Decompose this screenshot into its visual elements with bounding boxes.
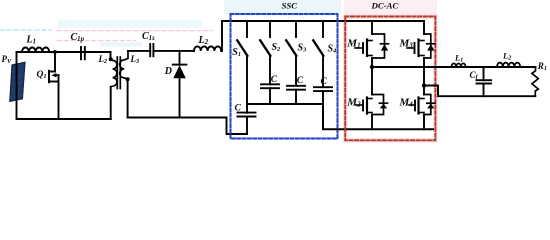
inductor L1	[22, 35, 49, 53]
capacitor C (S1 branch)	[235, 104, 256, 135]
wire: left leg bottom	[371, 115, 373, 130]
polarity dot primary	[109, 57, 113, 61]
node: left leg output junction	[370, 65, 374, 69]
resistor R1	[532, 61, 547, 96]
capacitor C (S3 branch)	[287, 56, 305, 105]
transistor M2	[346, 95, 387, 115]
svg-text:DC-AC: DC-AC	[371, 1, 399, 11]
wire: top-left horizontal rail	[17, 51, 111, 53]
capacitor C (S4 branch)	[314, 56, 332, 105]
wire: left vertical from top rail through PV to bottom rail	[16, 52, 18, 119]
inductor L2 (series)	[194, 35, 221, 51]
capacitor C (S2 branch)	[261, 56, 279, 105]
inductor L1 (output filter)	[452, 53, 466, 68]
DC-AC box	[345, 1, 435, 141]
wire: top rail into bridge	[222, 20, 424, 22]
svg-text:C: C	[271, 75, 278, 85]
transistor M3	[399, 21, 435, 58]
wire: output top (left leg junction to R1)	[372, 66, 536, 68]
wire: left leg mid	[371, 58, 373, 95]
switch S3	[286, 21, 306, 56]
transformer primary L2	[98, 54, 117, 119]
transistor M1	[346, 21, 388, 58]
wire: secondary top to C1s	[128, 50, 150, 52]
wire: step down into SSC bottom	[227, 118, 248, 135]
wire: elbow down to transformer primary	[110, 52, 112, 60]
transistor Q1	[37, 50, 59, 119]
svg-text:SSC: SSC	[282, 1, 298, 11]
SSC box	[231, 1, 338, 139]
wire: S1 column	[246, 56, 248, 113]
polarity dot secondary	[126, 77, 130, 81]
wire: elbow up to SSC top rail	[220, 21, 223, 51]
PV source Pv	[2, 54, 26, 101]
capacitor C1p	[71, 32, 85, 59]
wire: secondary bottom rail	[128, 117, 227, 119]
switch S2	[260, 21, 280, 56]
wire: right leg mid	[423, 58, 425, 95]
svg-text:C: C	[297, 76, 304, 86]
capacitor C1s	[142, 31, 155, 56]
transformer secondary L3	[120, 51, 139, 118]
node: right leg output junction	[422, 83, 426, 87]
wire: left bottom rail	[17, 118, 111, 120]
wire: right leg bottom	[423, 115, 425, 130]
diode D	[164, 51, 187, 118]
svg-text:C: C	[235, 104, 242, 114]
svg-text:C: C	[321, 77, 328, 87]
capacitor Cf	[470, 67, 492, 96]
transistor M4	[399, 95, 435, 115]
switch S1	[232, 21, 247, 58]
switch S4	[313, 21, 336, 56]
wire: C1s to L2 series inductor	[153, 50, 194, 52]
wire: SSC mid rail	[247, 103, 323, 105]
wire: right mid output exit	[424, 86, 535, 97]
wire: SSC exit to bridge bottom rail	[323, 104, 433, 129]
transformer core	[117, 57, 120, 89]
svg-text:D: D	[164, 66, 172, 77]
inductor L2 (output filter)	[497, 51, 520, 68]
